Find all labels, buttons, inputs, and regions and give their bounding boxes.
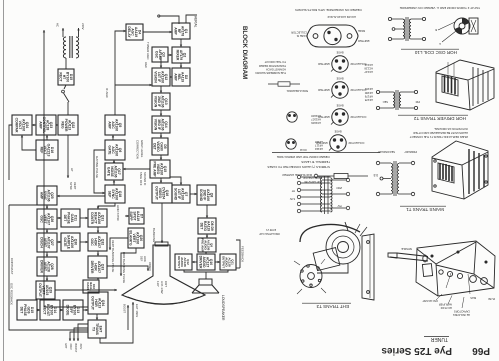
wire video to noise gate: [123, 168, 150, 170]
svg-text:AGAINST EACH: AGAINST EACH: [266, 67, 286, 71]
svg-text:VISION: VISION: [154, 119, 158, 131]
wire volt ref to comparator: [21, 135, 36, 150]
svg-text:OSC: OSC: [154, 51, 158, 59]
block Q23 control amp: [36, 115, 56, 135]
wire osc to mixer: [168, 54, 172, 56]
svg-text:COLLECTOR: COLLECTOR: [350, 88, 366, 92]
wire sync sep to noise gate: [113, 180, 115, 185]
wire regulator to control: [56, 124, 58, 126]
wire sync amp to vert osc: [46, 205, 48, 209]
CRT picture tube: [122, 242, 205, 305]
block Q31 reactance control: [88, 209, 107, 227]
svg-text:COMPAR: COMPAR: [15, 118, 19, 133]
wire into 1st IF: [160, 56, 162, 68]
svg-text:EMITTER: EMITTER: [318, 62, 330, 66]
small resistor note: [268, 82, 300, 86]
svg-text:SPINDLE: SPINDLE: [401, 247, 412, 250]
svg-text:BASE: BASE: [336, 104, 343, 108]
svg-text:COLLECTOR: COLLECTOR: [291, 31, 307, 35]
svg-text:0.5: 0.5: [373, 173, 378, 177]
svg-text:AC113: AC113: [364, 63, 373, 67]
wire hor output to EHT trans: [96, 314, 98, 320]
svg-text:BASE: BASE: [336, 77, 343, 81]
svg-text:OSC: OSC: [90, 238, 94, 246]
arrow EHT out 2: [73, 328, 88, 341]
svg-text:OUTPUT: OUTPUT: [91, 296, 95, 311]
block D10 damper: [83, 280, 99, 293]
block Q6 AGC gate: [105, 140, 125, 160]
block EHT trans T3: [88, 320, 106, 338]
wire vert blanking: [109, 238, 128, 250]
svg-text:GREY LEVEL: GREY LEVEL: [140, 140, 144, 158]
svg-text:SOUND: SOUND: [174, 188, 178, 201]
svg-text:THE NUMBERS SHOWN: THE NUMBERS SHOWN: [255, 71, 286, 75]
block Q16 video output: [152, 183, 172, 203]
wire contrast riser: [9, 204, 37, 206]
wire pre amp to video output: [160, 178, 162, 183]
TO-3 power transistor outline: [307, 25, 358, 47]
wire hor deflection: [107, 266, 149, 271]
svg-text:OUTPUT: OUTPUT: [155, 186, 159, 201]
block D15 HT rectifier: [58, 69, 74, 85]
svg-text:75V: 75V: [337, 204, 342, 207]
wire damper to output: [94, 292, 98, 293]
wire 1st to 2nd IF: [160, 86, 162, 93]
svg-text:VERT BLANKING PULSE: VERT BLANKING PULSE: [111, 240, 115, 272]
svg-text:HOR BLANKING PULSE: HOR BLANKING PULSE: [122, 252, 126, 283]
svg-text:AMP: AMP: [40, 192, 44, 200]
wire vert discharge to driver: [46, 252, 48, 257]
svg-text:OSC ADJUST: OSC ADJUST: [422, 299, 438, 302]
wire noise gate to AGC gate: [113, 160, 115, 163]
svg-text:VIDEO: VIDEO: [148, 262, 152, 272]
svg-text:CAPACITORS: CAPACITORS: [454, 310, 470, 313]
wire tuner AGC: [143, 31, 172, 33]
block Q13 2nd IF vision: [152, 93, 170, 110]
block Q18 sync separator: [105, 185, 125, 203]
svg-text:PRIMARY: PRIMARY: [404, 150, 417, 154]
mains lead arrow 1: [77, 28, 79, 37]
block Q30 sample gate: [61, 233, 80, 251]
svg-text:AMP: AMP: [108, 121, 112, 129]
hor driver winding diagram: [376, 90, 417, 110]
svg-text:DRIVER: DRIVER: [90, 261, 94, 274]
svg-text:PRE AMP: PRE AMP: [200, 238, 204, 252]
mains transformer winding diagram: [376, 161, 414, 196]
wire hor blanking: [120, 248, 136, 276]
wire control to comparator: [32, 124, 36, 126]
svg-text:CONTRAST: CONTRAST: [10, 258, 14, 275]
svg-text:DELAY: DELAY: [127, 26, 131, 38]
arrow EHT out 3: [69, 332, 88, 341]
wire sample to hor osc: [80, 241, 88, 243]
svg-text:OSC: OSC: [40, 215, 44, 223]
wire sample to vert: [57, 241, 61, 243]
wire feedback: [236, 240, 240, 268]
svg-text:INSULATING CAP: INSULATING CAP: [259, 232, 280, 235]
svg-text:COLLECTOR: COLLECTOR: [350, 115, 366, 119]
svg-text:VIEWED ON UNDERSIDE. MTG BOLTS: VIEWED ON UNDERSIDE. MTG BOLTS SHOWN: [295, 8, 362, 12]
wire AGC gate to amp: [112, 135, 114, 140]
block Q12 audio output: [175, 254, 192, 270]
svg-text:BLOCK DIAGRAM: BLOCK DIAGRAM: [241, 26, 248, 79]
svg-text:110°: 110°: [156, 281, 160, 288]
block Q12 1st IF vision: [152, 68, 170, 86]
svg-text:IF AGC: IF AGC: [105, 88, 109, 99]
svg-text:EMITTER: EMITTER: [358, 39, 370, 43]
svg-text:LEADS MUST BE RESLEEVED AND FI: LEADS MUST BE RESLEEVED AND FITTED: [413, 131, 468, 135]
svg-text:AF181: AF181: [364, 87, 373, 91]
wire outputs rail: [184, 270, 228, 272]
wire aerial to RF amp: [160, 16, 179, 24]
svg-text:DET: DET: [63, 215, 67, 223]
svg-text:20KV: 20KV: [69, 344, 72, 350]
wire driver to output bottom: [192, 261, 197, 263]
pinout AF17x types: [331, 82, 348, 98]
block Q14 3rd IF vision: [152, 116, 170, 133]
svg-text:P66: P66: [472, 345, 490, 356]
svg-text:TUNER AGC: TUNER AGC: [146, 42, 150, 60]
svg-text:OUTPUT: OUTPUT: [38, 283, 42, 298]
block Q28 vert driver: [37, 257, 57, 276]
svg-text:300V: 300V: [79, 344, 82, 350]
wire vert deflection: [55, 289, 117, 291]
pinout AX types: [331, 109, 348, 125]
svg-text:BASE: BASE: [336, 51, 343, 55]
block Q9 audio pre amp: [198, 238, 216, 252]
svg-text:PRI: PRI: [415, 100, 420, 104]
svg-text:EHT TRANS T3: EHT TRANS T3: [316, 304, 349, 309]
svg-text:SEP: SEP: [108, 191, 112, 199]
wire video to 1st IF sound: [170, 177, 182, 185]
svg-text:EMITTER: EMITTER: [318, 88, 330, 92]
wire 2nd to 3rd IF: [160, 110, 162, 116]
svg-text:A: A: [439, 42, 441, 46]
block Q10 audio driver: [197, 254, 215, 270]
svg-text:REF: REF: [40, 147, 44, 154]
svg-text:BASE: BASE: [358, 29, 365, 33]
svg-text:HT: HT: [70, 168, 74, 172]
svg-text:IN POSITION AS ORIGINAL: IN POSITION AS ORIGINAL: [433, 127, 468, 131]
block Q34 hor output: [88, 292, 108, 314]
svg-text:T3: T3: [91, 327, 95, 331]
svg-text:DIODE: DIODE: [66, 305, 70, 316]
wire volt ref to control: [46, 135, 48, 140]
block Q2 mixer: [172, 47, 190, 63]
wire gating pulse: [94, 150, 105, 194]
block Q25 sync amp: [37, 186, 57, 205]
pinout small left second: [287, 112, 297, 122]
svg-text:AMP: AMP: [174, 73, 178, 81]
svg-text:DRIVER: DRIVER: [40, 260, 44, 273]
svg-text:BOOST: BOOST: [123, 304, 127, 313]
mains lead arrow 2: [62, 28, 64, 37]
svg-text:SUPP: SUPP: [129, 211, 133, 221]
wire det to pre amp: [160, 155, 162, 160]
svg-text:TRANSISTOR REFER: TRANSISTOR REFER: [259, 64, 286, 68]
svg-text:BOOST: BOOST: [74, 344, 77, 353]
svg-text:6.3V: 6.3V: [290, 197, 295, 200]
svg-text:B: B: [435, 28, 437, 32]
svg-text:HOR DRIVER TRANS T2: HOR DRIVER TRANS T2: [413, 116, 466, 121]
wire IF AGC riser: [115, 84, 152, 86]
svg-text:250V: 250V: [336, 186, 342, 189]
svg-text:BIAS: BIAS: [470, 296, 476, 299]
svg-text:HOR: HOR: [143, 256, 147, 262]
svg-text:GATE: GATE: [108, 145, 112, 155]
wire sync to vert chain: [57, 195, 105, 197]
block Q22 power regulator: [58, 115, 78, 135]
wire video output to CRT: [161, 203, 163, 243]
block Q24 voltage comparator: [12, 115, 32, 135]
svg-text:BLANK'G: BLANK'G: [129, 230, 133, 246]
svg-text:GATE: GATE: [63, 237, 67, 247]
svg-text:DET: DET: [153, 143, 157, 151]
wire to spot supp: [125, 215, 129, 217]
svg-text:R49 SURGE LIMITER: R49 SURGE LIMITER: [281, 173, 312, 177]
wire RF to mixer: [180, 39, 182, 47]
svg-text:AX1108: AX1108: [311, 114, 321, 118]
svg-text:TUNER: TUNER: [430, 336, 448, 342]
pinout pair left: [329, 135, 346, 151]
block D5 video detector: [152, 138, 168, 155]
block D13 efficiency diode: [63, 300, 83, 320]
wire hor driver to damper: [97, 278, 99, 280]
on-off switch: [62, 85, 69, 115]
svg-text:VISION: VISION: [154, 96, 158, 108]
block Q27 vert discharge: [37, 233, 57, 252]
block D16 voltage reference: [36, 140, 58, 160]
svg-text:DAMP: DAMP: [86, 282, 90, 290]
svg-text:VISION: VISION: [154, 71, 158, 83]
wire eff diode: [83, 309, 88, 311]
svg-text:DISCH: DISCH: [40, 237, 44, 248]
svg-text:AERIAL: AERIAL: [194, 16, 198, 28]
block Q33 hor driver: [88, 256, 107, 278]
svg-text:WHEN REPLACING TRANS T1 THE CO: WHEN REPLACING TRANS T1 THE CONNECT: [409, 135, 468, 139]
wire feedback drop: [236, 267, 240, 269]
svg-text:HT: HT: [291, 189, 295, 192]
svg-text:COLLECTOR: COLLECTOR: [350, 62, 366, 66]
svg-text:FEEDBACK: FEEDBACK: [241, 246, 245, 262]
svg-text:AMPLIFIER: AMPLIFIER: [439, 303, 452, 306]
wire 1st IF to rel amp: [170, 76, 172, 78]
hor osc coil pictorial: [438, 18, 478, 42]
svg-text:RECT: RECT: [59, 72, 63, 82]
svg-text:REG: REG: [61, 121, 65, 129]
block D7 spot suppressor: [129, 208, 144, 224]
svg-text:SECONDARY: SECONDARY: [377, 150, 395, 154]
svg-text:CASE IS: CASE IS: [296, 34, 307, 38]
mains transformer: [63, 36, 78, 58]
wire EHT to CRT: [100, 302, 134, 343]
wire phase det to vert: [57, 217, 61, 219]
block Q29 vert output: [36, 281, 55, 299]
block ratio detector: [198, 218, 216, 234]
wire mixer to rel amp: [180, 63, 182, 68]
hor driver transformer pictorial: [436, 60, 494, 110]
block D14 boost rectifier: [40, 300, 60, 320]
svg-text:HOR SYNC: HOR SYNC: [116, 205, 120, 222]
wire RF amp aerial stub: [186, 15, 197, 23]
block Q17 noise gate: [105, 163, 123, 180]
aerial terminal dot: [158, 15, 160, 17]
wire rail to speaker: [205, 272, 207, 279]
wire vert driver to output: [46, 276, 48, 281]
block Q11 audio output: [220, 254, 236, 270]
wire regulator HT out: [67, 135, 69, 178]
wire hor osc to driver: [97, 251, 99, 256]
svg-text:DEF: DEF: [140, 256, 144, 262]
svg-text:OUTPUT: OUTPUT: [177, 256, 181, 269]
pinout small left top: [286, 139, 296, 149]
svg-text:TO THE CIRCUIT: TO THE CIRCUIT: [264, 60, 286, 64]
wire 3rd IF to video det: [160, 133, 162, 138]
wire sync to hor chain: [97, 203, 115, 209]
EHT winding diagram: [297, 175, 349, 214]
wire ratio det to pre amp: [206, 234, 208, 238]
block D4 AGC delay: [126, 24, 143, 40]
block D15 phase det: [17, 300, 37, 320]
svg-text:SOUND: SOUND: [199, 189, 203, 202]
wire boost rect: [60, 309, 63, 311]
block Q5 AGC amp: [105, 115, 125, 135]
svg-text:TOP CAP EY86: TOP CAP EY86: [304, 180, 322, 183]
svg-text:LOUDSPEAKER: LOUDSPEAKER: [221, 295, 225, 321]
mains transformer pictorial: [432, 141, 488, 199]
svg-text:AC: AC: [56, 23, 60, 27]
svg-text:COLLECTOR: COLLECTOR: [348, 141, 364, 145]
EHT transformer pictorial: [294, 222, 374, 300]
wire react to hor osc: [97, 227, 99, 233]
svg-text:AGC: AGC: [144, 62, 148, 68]
svg-text:Pye T25 Series: Pye T25 Series: [381, 345, 452, 356]
svg-text:MIXER: MIXER: [175, 50, 179, 61]
svg-text:CORRECTION: CORRECTION: [136, 140, 140, 159]
svg-text:AMP: AMP: [39, 121, 43, 129]
svg-text:GATE: GATE: [107, 167, 111, 177]
arrow EHT out 1: [77, 324, 88, 341]
block Q26 vert osc: [37, 209, 57, 229]
svg-text:BASE: BASE: [334, 130, 341, 134]
pinout AC types: [331, 56, 348, 72]
wire AGC bus to delay: [115, 30, 126, 115]
block Q20 vert blanking: [128, 228, 144, 248]
wire phase det lower: [37, 309, 40, 311]
svg-text:TAP AT 2 TURNS FROM END A. VIE: TAP AT 2 TURNS FROM END A. VIEWED ON UND…: [400, 6, 480, 10]
svg-text:BLANKING: BLANKING: [152, 228, 156, 242]
wire driver to output top: [215, 261, 220, 263]
wire mains bus: [43, 30, 88, 307]
wire comparator to bus: [9, 125, 12, 180]
svg-text:AU103 AU110 AU113: AU103 AU110 AU113: [327, 15, 356, 19]
page edge line: [3, 0, 5, 361]
wire hor row to phase det: [80, 217, 88, 219]
svg-text:GATING PULSE: GATING PULSE: [95, 156, 99, 178]
wire boost to CRT: [127, 305, 129, 330]
svg-text:AMP: AMP: [174, 27, 178, 35]
wire contrast bus: [9, 205, 88, 330]
svg-text:MAINS TRANS T1: MAINS TRANS T1: [406, 207, 444, 212]
svg-text:TERMINAL 'B' LEADS: TERMINAL 'B' LEADS: [301, 160, 330, 164]
wire transformer to rectifier: [65, 58, 67, 69]
block D2 rel amp: [172, 68, 190, 86]
svg-text:SYNC: SYNC: [69, 182, 73, 190]
svg-text:OSC FEEDBACK: OSC FEEDBACK: [10, 283, 14, 305]
svg-text:EHT: EHT: [64, 344, 67, 349]
block Q7 1st IF sound: [172, 185, 190, 203]
loudspeaker: [192, 279, 219, 293]
svg-text:VIEWED FROM TOP AND WIRING SID: VIEWED FROM TOP AND WIRING SIDE: [277, 155, 330, 159]
hor osc coil winding diagram: [388, 17, 425, 41]
svg-text:500mA READING: 500mA READING: [287, 89, 308, 93]
wire vert osc to discharge: [46, 229, 48, 233]
block Q32 hor osc: [88, 233, 107, 251]
wire 2nd IF sound to ratio det: [206, 205, 208, 218]
svg-text:AF118: AF118: [315, 140, 323, 144]
svg-text:PL/SK: PL/SK: [488, 297, 495, 300]
svg-text:DRIVER: DRIVER: [199, 256, 203, 269]
svg-text:HOR OSC COIL L10: HOR OSC COIL L10: [414, 50, 457, 55]
svg-text:EY86 V1: EY86 V1: [266, 228, 276, 231]
svg-text:OC44: OC44: [299, 148, 306, 152]
wire pre amp to driver: [205, 252, 207, 254]
svg-text:EHT 16KV: EHT 16KV: [135, 304, 139, 317]
block Q15 video pre amp: [150, 160, 170, 178]
svg-text:SYMBOLS (*) LEADS CONNECTED TO: SYMBOLS (*) LEADS CONNECTED TO CASES: [267, 165, 330, 169]
tuner pictorial: [388, 241, 495, 308]
svg-text:SEC: SEC: [383, 100, 388, 104]
block Q8 2nd IF sound: [197, 185, 216, 205]
wire 1st to 2nd IF sound: [190, 193, 197, 195]
svg-text:CONTR: CONTR: [90, 212, 94, 225]
svg-text:DET: DET: [200, 223, 204, 231]
svg-text:240V: 240V: [81, 23, 85, 30]
svg-text:OUTPUT: OUTPUT: [221, 256, 225, 269]
block Q1 RF amp: [172, 23, 190, 39]
svg-text:PRE AMP: PRE AMP: [153, 161, 157, 177]
block Q3 oscillator: [152, 47, 168, 62]
wire rect to switch stub: [58, 84, 66, 86]
svg-text:TAKE OFF: TAKE OFF: [139, 172, 143, 186]
svg-text:DET: DET: [20, 307, 24, 315]
block D11 phase detector: [61, 209, 80, 227]
